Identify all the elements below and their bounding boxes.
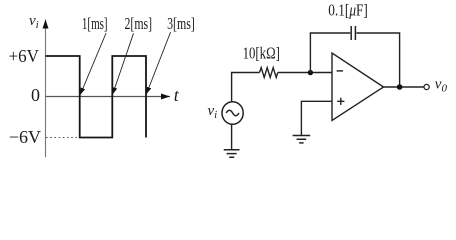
pin - (inverting input mark)	[337, 70, 343, 72]
dotted -6V reference	[46, 137, 79, 139]
wire feedback right riser	[356, 33, 399, 87]
wire non-inverting input to ground	[301, 101, 332, 135]
svg-text:2[ms]: 2[ms]	[125, 14, 153, 33]
leader arrow 3ms	[146, 32, 170, 94]
leader arrow 1ms	[80, 33, 106, 95]
square wave v_i	[46, 56, 147, 138]
capacitor C1 0.1[μF]	[350, 26, 352, 40]
output terminal	[424, 84, 429, 89]
node A (inverting input junction)	[308, 70, 313, 75]
wire op-amp output	[384, 86, 424, 88]
source V1 (v_i sine source)	[222, 102, 243, 125]
wire source to ground	[231, 124, 233, 150]
svg-text:−6V: −6V	[9, 127, 41, 147]
ground (non-inverting input)	[293, 136, 311, 143]
svg-text:0.1[μF]: 0.1[μF]	[328, 1, 368, 20]
leader arrow 2ms	[113, 33, 134, 94]
svg-text:3[ms]: 3[ms]	[167, 14, 195, 33]
ground (source)	[224, 150, 240, 157]
wire feedback left riser	[310, 33, 350, 73]
wire resistor to op-amp inverting input	[278, 72, 332, 74]
svg-text:1[ms]: 1[ms]	[82, 14, 108, 33]
wire source to resistor	[232, 73, 260, 102]
svg-text:10[kΩ]: 10[kΩ]	[243, 44, 280, 63]
waveform t-axis	[46, 96, 171, 98]
waveform v-axis	[45, 20, 47, 158]
node B (output junction)	[397, 84, 403, 90]
resistor R1 10[kΩ]	[260, 68, 278, 78]
pin + (non-inverting input mark)	[337, 98, 344, 105]
svg-text:+6V: +6V	[9, 46, 39, 66]
svg-text:0: 0	[31, 85, 40, 105]
op-amp U1	[332, 53, 384, 121]
